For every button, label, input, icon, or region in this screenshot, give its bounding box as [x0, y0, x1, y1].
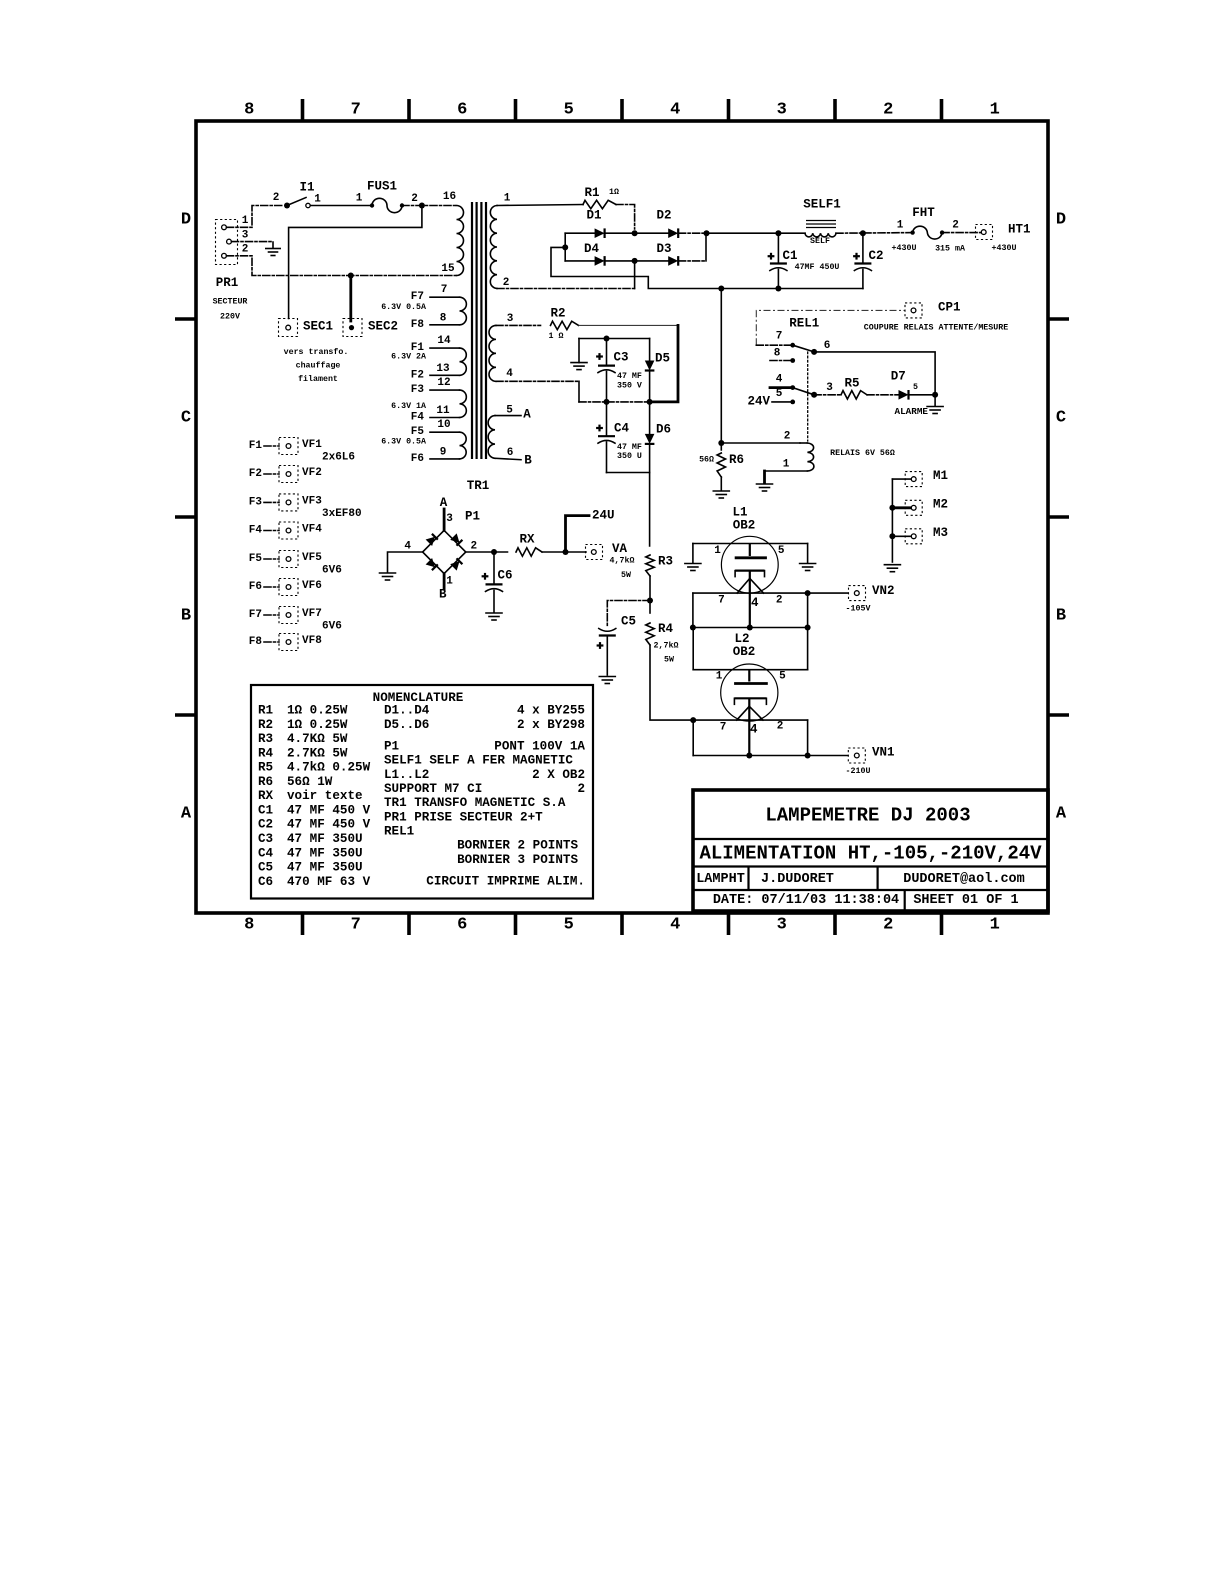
transformer filament winding F5-F6 pins 10-9	[381, 419, 466, 465]
svg-text:7: 7	[776, 331, 783, 343]
svg-text:1: 1	[446, 576, 453, 588]
svg-text:R2: R2	[550, 307, 565, 321]
svg-text:C1: C1	[782, 249, 797, 263]
svg-text:5: 5	[564, 101, 574, 120]
svg-text:SUPPORT M7 CI: SUPPORT M7 CI	[384, 782, 482, 796]
svg-text:VN2: VN2	[872, 584, 895, 598]
ruler ticks bottom	[303, 913, 942, 935]
ruler ticks left	[175, 319, 196, 715]
ground below R6	[713, 491, 729, 498]
ground below measure bus	[884, 565, 900, 572]
svg-text:C: C	[1056, 409, 1066, 428]
wire C3 top row	[579, 338, 650, 340]
svg-text:filament: filament	[298, 374, 338, 384]
svg-text:24V: 24V	[747, 395, 770, 409]
svg-text:VF4: VF4	[302, 524, 322, 536]
svg-text:PONT 100V 1A: PONT 100V 1A	[494, 740, 585, 754]
svg-text:3: 3	[242, 230, 249, 242]
svg-text:1: 1	[716, 671, 723, 683]
tube L1 OB2	[693, 506, 808, 628]
svg-text:C6: C6	[258, 875, 273, 889]
svg-text:R3: R3	[258, 732, 273, 746]
ground L1 pin5	[800, 544, 816, 571]
svg-text:2: 2	[952, 220, 959, 232]
wire pin5 to terminal A	[495, 408, 531, 422]
svg-text:R5: R5	[844, 377, 859, 391]
resistor R6 56ohm	[699, 453, 744, 490]
svg-text:1Ω 0.25W: 1Ω 0.25W	[287, 718, 348, 732]
connector M2	[889, 497, 948, 515]
nomenclature box	[251, 685, 593, 899]
svg-text:2 X OB2: 2 X OB2	[532, 768, 585, 782]
svg-text:1: 1	[714, 545, 721, 557]
svg-text:24U: 24U	[592, 509, 615, 523]
label 47MF 450U	[795, 263, 840, 272]
svg-text:B: B	[1056, 607, 1066, 626]
svg-text:470 MF 63 V: 470 MF 63 V	[287, 875, 371, 889]
ruler ticks right	[1048, 319, 1069, 715]
node 6 wire to D7 cathode	[814, 340, 935, 395]
svg-text:C1: C1	[258, 803, 274, 817]
svg-text:F3: F3	[249, 496, 263, 508]
svg-text:C3: C3	[258, 832, 273, 846]
svg-text:R4: R4	[258, 746, 274, 760]
wire 24U tap	[566, 509, 615, 552]
wire CP1 feed	[756, 310, 905, 345]
svg-text:4.7KΩ 5W: 4.7KΩ 5W	[287, 732, 348, 746]
svg-text:VF6: VF6	[302, 580, 322, 592]
svg-text:SHEET 01 OF 1: SHEET 01 OF 1	[913, 893, 1018, 908]
wire L2 box sides	[693, 720, 807, 755]
svg-text:RX: RX	[258, 789, 274, 803]
svg-text:4: 4	[404, 541, 411, 553]
svg-text:47 MF 450 V: 47 MF 450 V	[287, 803, 371, 817]
capacitor C1 47MF 450V	[768, 230, 798, 291]
svg-text:7: 7	[720, 722, 727, 734]
junction C3 top	[604, 336, 610, 342]
svg-text:2: 2	[777, 721, 784, 733]
relay contact 4	[770, 374, 795, 391]
wire FUS1 to transformer pin16	[402, 203, 456, 209]
svg-text:F1: F1	[249, 440, 263, 452]
svg-text:350 U: 350 U	[617, 452, 642, 461]
ground ALARME	[895, 395, 944, 417]
transformer filament winding F1-F2 pins 14-13	[391, 335, 466, 381]
svg-text:SEC2: SEC2	[368, 320, 398, 334]
capacitor C6 470MF	[482, 552, 513, 612]
svg-text:2: 2	[503, 277, 510, 289]
svg-text:3xEF80: 3xEF80	[322, 508, 362, 520]
connector VA	[586, 542, 628, 560]
svg-text:2: 2	[883, 916, 893, 935]
transformer TR1 label	[467, 479, 490, 493]
svg-text:C6: C6	[497, 569, 512, 583]
svg-text:2x6L6: 2x6L6	[322, 452, 355, 464]
junction bridge AC2	[632, 258, 638, 264]
svg-text:5: 5	[778, 545, 785, 557]
wire RX to VA	[542, 549, 586, 555]
junction on pin15 wire	[348, 273, 354, 279]
wire L1 L2 rail	[690, 625, 811, 631]
svg-text:4: 4	[506, 368, 513, 380]
svg-text:A: A	[1056, 805, 1067, 824]
wire PR1 pin1 to switch I1	[227, 206, 285, 228]
label 315 mA	[935, 245, 965, 254]
svg-text:56Ω: 56Ω	[699, 455, 714, 464]
svg-text:8: 8	[774, 348, 781, 360]
svg-text:1: 1	[783, 459, 790, 471]
wire R2 to right rail	[579, 324, 679, 326]
svg-text:16: 16	[443, 191, 456, 203]
svg-text:2: 2	[273, 192, 280, 204]
svg-text:47 MF 350U: 47 MF 350U	[287, 832, 363, 846]
svg-text:J.DUDORET: J.DUDORET	[761, 872, 834, 887]
svg-text:4: 4	[670, 101, 680, 120]
title block cell DATE	[713, 893, 899, 908]
connector VN2	[846, 584, 895, 613]
svg-text:L1..L2: L1..L2	[384, 768, 429, 782]
svg-text:PR1 PRISE SECTEUR 2+T: PR1 PRISE SECTEUR 2+T	[384, 810, 543, 824]
fuse FUS1	[356, 180, 418, 213]
wire L2 pins row	[690, 717, 807, 736]
svg-text:VF8: VF8	[302, 635, 322, 647]
svg-text:RX: RX	[519, 533, 535, 547]
svg-text:+430U: +430U	[992, 244, 1017, 253]
relay REL1 label	[789, 317, 819, 331]
wire P1 pin4 to ground	[388, 552, 423, 572]
connector VN1	[846, 746, 895, 777]
inductor SELF1	[803, 197, 841, 246]
diode D5	[645, 339, 670, 402]
svg-text:VF1: VF1	[302, 439, 322, 451]
transformer TR1 primary winding 16-15	[441, 191, 463, 276]
svg-text:2: 2	[784, 431, 791, 443]
svg-text:6V6: 6V6	[322, 565, 342, 577]
svg-text:7: 7	[351, 101, 361, 120]
svg-text:SELF1: SELF1	[803, 197, 841, 211]
connector VF1 (F1)	[249, 438, 355, 464]
svg-text:2: 2	[883, 101, 893, 120]
svg-text:VF5: VF5	[302, 552, 322, 564]
svg-text:R6: R6	[729, 453, 744, 467]
fuse FHT	[897, 206, 959, 239]
svg-text:R5: R5	[258, 761, 273, 775]
svg-text:DATE: 07/11/03 11:38:04: DATE: 07/11/03 11:38:04	[713, 893, 899, 908]
svg-text:P1: P1	[384, 740, 400, 754]
ruler numbers bottom	[244, 916, 1000, 935]
svg-text:A: A	[440, 496, 448, 510]
svg-text:SELF1 SELF A FER MAGNETIC: SELF1 SELF A FER MAGNETIC	[384, 754, 573, 768]
svg-text:4,7kΩ: 4,7kΩ	[610, 555, 635, 565]
junction bridge AC1	[632, 230, 638, 236]
svg-text:F6: F6	[411, 453, 424, 465]
wire P1 pin2 to RX	[466, 549, 508, 555]
svg-text:D5..D6: D5..D6	[384, 718, 429, 732]
svg-text:+430U: +430U	[892, 244, 917, 253]
svg-text:1: 1	[897, 220, 904, 232]
svg-text:4: 4	[776, 374, 783, 386]
wire junction to SEC1	[289, 206, 422, 319]
wire R1 to bridge	[616, 205, 635, 230]
svg-text:COUPURE RELAIS ATTENTE/MESURE: COUPURE RELAIS ATTENTE/MESURE	[864, 323, 1008, 333]
ground at PR1 pin3	[266, 249, 280, 256]
junction 0V rail	[718, 286, 724, 292]
svg-text:A: A	[181, 805, 192, 824]
svg-text:HT1: HT1	[1008, 223, 1031, 237]
svg-text:47 MF 350U: 47 MF 350U	[287, 846, 363, 860]
svg-text:6: 6	[507, 447, 514, 459]
svg-text:LAMPHT: LAMPHT	[696, 872, 745, 887]
capacitor C3 47MF 350V	[596, 339, 642, 402]
wire pin6 to terminal B	[495, 454, 532, 468]
wire C3 bottom row	[579, 399, 653, 405]
svg-text:14: 14	[437, 335, 451, 347]
wire pin4 down to bottom row	[578, 381, 580, 402]
svg-text:6V6: 6V6	[322, 621, 342, 633]
svg-text:P1: P1	[465, 510, 480, 524]
connector M3	[889, 526, 948, 544]
wire secondary pin3 to R2	[496, 324, 541, 326]
svg-text:DUDORET@aol.com: DUDORET@aol.com	[903, 872, 1025, 887]
connector VF5 (F5)	[249, 551, 342, 577]
svg-text:C4: C4	[258, 846, 274, 860]
svg-text:OB2: OB2	[733, 645, 756, 659]
svg-text:CP1: CP1	[938, 301, 961, 315]
connector VF8 (F8)	[249, 634, 322, 651]
wire node 3 to R5	[814, 382, 840, 395]
svg-text:F7: F7	[249, 609, 262, 621]
svg-text:4: 4	[670, 916, 680, 935]
svg-text:F7: F7	[411, 291, 424, 303]
subtitle ALIMENTATION HT,-105,-210V,24V	[699, 843, 1042, 865]
svg-text:6: 6	[457, 916, 467, 935]
svg-text:47 MF 450 V: 47 MF 450 V	[287, 818, 371, 832]
svg-text:F8: F8	[411, 319, 425, 331]
svg-text:D1..D4: D1..D4	[384, 704, 430, 718]
svg-text:M2: M2	[933, 497, 948, 511]
svg-text:10: 10	[437, 419, 450, 431]
svg-text:-210U: -210U	[846, 767, 871, 776]
wire R5 to D7	[867, 394, 899, 396]
relay link dotted	[807, 352, 809, 441]
title text LAMPEMETRE DJ 2003	[765, 805, 970, 827]
connector M1	[892, 469, 948, 487]
svg-text:F4: F4	[411, 412, 425, 424]
svg-text:LAMPEMETRE DJ 2003: LAMPEMETRE DJ 2003	[765, 805, 970, 827]
svg-text:1Ω 0.25W: 1Ω 0.25W	[287, 704, 348, 718]
svg-text:315 mA: 315 mA	[935, 245, 965, 254]
ruler letters right	[1056, 211, 1067, 824]
wire secondary pin2 rail	[497, 288, 636, 290]
note vers transfo chauffage filament	[284, 347, 349, 384]
svg-text:3: 3	[777, 101, 787, 120]
svg-text:220V: 220V	[220, 313, 240, 322]
wire bridge left side	[562, 233, 568, 261]
svg-text:F3: F3	[411, 384, 425, 396]
svg-text:4: 4	[750, 723, 758, 737]
wire bridge bottom row	[565, 260, 706, 262]
svg-text:ALARME: ALARME	[895, 406, 929, 417]
ground below C5	[599, 677, 615, 684]
svg-text:C5: C5	[258, 861, 273, 875]
title block	[693, 790, 1048, 911]
svg-text:1: 1	[242, 215, 249, 227]
svg-text:2 x BY298: 2 x BY298	[517, 718, 585, 732]
svg-text:3: 3	[826, 382, 833, 394]
title block cell SHEET	[913, 893, 1018, 908]
diode D4	[584, 242, 605, 266]
svg-text:C2: C2	[868, 249, 883, 263]
wire right rail down	[652, 325, 678, 402]
svg-text:B: B	[181, 607, 191, 626]
svg-text:350 V: 350 V	[617, 382, 642, 391]
svg-text:TR1 TRANSFO MAGNETIC S.A: TR1 TRANSFO MAGNETIC S.A	[384, 796, 566, 810]
diode D3	[656, 242, 678, 266]
svg-text:SELF: SELF	[810, 237, 830, 246]
svg-text:D3: D3	[656, 242, 671, 256]
transformer secondary winding 3-4	[489, 313, 514, 381]
wire R4 down to L2 row	[650, 645, 693, 720]
svg-text:chauffage: chauffage	[296, 361, 341, 371]
node SEC1	[279, 319, 334, 337]
svg-text:6: 6	[457, 101, 467, 120]
svg-text:5: 5	[564, 916, 574, 935]
transformer secondary winding 5-6	[488, 405, 513, 460]
svg-text:5: 5	[779, 671, 786, 683]
svg-text:ALIMENTATION HT,-105,-210V,24V: ALIMENTATION HT,-105,-210V,24V	[699, 843, 1042, 865]
resistor R2 1ohm	[549, 307, 579, 342]
wire secondary pin1 to R1	[497, 205, 583, 206]
svg-text:R2: R2	[258, 718, 273, 732]
svg-text:7: 7	[441, 284, 448, 296]
svg-text:R3: R3	[658, 554, 673, 568]
svg-text:M3: M3	[933, 526, 948, 540]
wire bridge right side up	[704, 230, 710, 261]
svg-text:BORNIER 2 POINTS: BORNIER 2 POINTS	[457, 839, 578, 853]
svg-text:15: 15	[441, 263, 455, 275]
diode D6	[645, 402, 671, 473]
wire I1 to FUS1	[311, 205, 371, 207]
svg-text:9: 9	[440, 446, 447, 458]
svg-text:CIRCUIT IMPRIME ALIM.: CIRCUIT IMPRIME ALIM.	[426, 875, 585, 889]
connector VF3 (F3)	[249, 494, 362, 520]
svg-text:B: B	[439, 588, 447, 602]
svg-text:C3: C3	[613, 350, 628, 364]
wire measure bus	[891, 479, 893, 562]
svg-text:2: 2	[776, 595, 783, 607]
node SEC2	[343, 319, 398, 337]
nomenclature right column	[384, 704, 585, 889]
svg-text:VA: VA	[612, 542, 628, 556]
svg-text:R6: R6	[258, 775, 273, 789]
svg-text:2: 2	[470, 541, 477, 553]
wire AC2 junction down	[634, 261, 636, 289]
diode D7	[891, 370, 938, 400]
svg-text:D1: D1	[586, 209, 601, 223]
svg-text:4: 4	[751, 596, 759, 610]
svg-text:D5: D5	[655, 352, 670, 366]
ground below C6	[486, 613, 502, 620]
title block cell DUDORET@aol.com	[903, 872, 1025, 887]
wire FHT to HT1	[942, 232, 981, 234]
svg-text:2: 2	[411, 193, 418, 205]
connector VF4 (F4)	[249, 522, 322, 539]
svg-text:C4: C4	[614, 421, 630, 435]
svg-text:F2: F2	[411, 369, 424, 381]
svg-text:6.3V 0.5A: 6.3V 0.5A	[381, 303, 426, 312]
nomenclature left column	[258, 704, 371, 889]
svg-text:3: 3	[446, 513, 453, 525]
resistor R4 2.7k 5W	[646, 622, 679, 665]
svg-text:F4: F4	[249, 525, 263, 537]
svg-text:D6: D6	[656, 422, 671, 436]
connector VF7 (F7)	[249, 607, 342, 633]
svg-text:4.7kΩ 0.25W: 4.7kΩ 0.25W	[287, 761, 371, 775]
resistor RX	[516, 533, 542, 557]
resistor R5 4.7k	[841, 377, 867, 400]
svg-text:D2: D2	[656, 209, 671, 223]
wire C4 D6 bottom row to negative rail	[607, 473, 650, 547]
svg-text:1: 1	[990, 101, 1000, 120]
svg-text:2: 2	[577, 782, 585, 796]
svg-text:vers transfo.: vers transfo.	[284, 347, 349, 357]
svg-text:12: 12	[437, 377, 450, 389]
relay contact 5 24V feed	[747, 388, 795, 409]
svg-text:D7: D7	[891, 370, 906, 384]
connector PR1	[213, 215, 249, 322]
svg-text:A: A	[523, 408, 531, 422]
svg-text:5W: 5W	[664, 655, 674, 664]
svg-text:5: 5	[913, 383, 918, 392]
connector VF2 (F2)	[249, 466, 322, 483]
svg-text:R4: R4	[658, 622, 674, 636]
svg-text:56Ω 1W: 56Ω 1W	[287, 775, 333, 789]
svg-text:F8: F8	[249, 636, 263, 648]
svg-text:OB2: OB2	[733, 519, 756, 533]
svg-text:F5: F5	[249, 553, 263, 565]
connector CP1	[905, 301, 961, 318]
nomenclature title	[373, 691, 464, 705]
svg-text:6.3V 0.5A: 6.3V 0.5A	[381, 437, 426, 446]
wire PR1 pin3 to ground	[232, 242, 274, 248]
svg-text:C: C	[181, 409, 191, 428]
relay contact 7	[756, 331, 795, 348]
ground below relay coil	[757, 471, 773, 491]
svg-text:6.3V 2A: 6.3V 2A	[391, 353, 426, 362]
svg-text:1: 1	[356, 193, 363, 205]
svg-text:VF2: VF2	[302, 467, 322, 479]
relay blade 7-6	[793, 345, 817, 355]
svg-text:8: 8	[440, 312, 447, 324]
ground at P1 pin4	[380, 573, 396, 580]
transformer filament winding F7-F8 pins 7-8	[381, 284, 466, 331]
title block cell J.DUDORET	[761, 872, 834, 887]
drawing border frame	[196, 121, 1048, 913]
wire P1 pin3 to A	[440, 496, 448, 530]
svg-text:2,7kΩ: 2,7kΩ	[654, 640, 679, 650]
svg-text:47 MF: 47 MF	[617, 372, 642, 381]
ruler numbers top	[244, 101, 1000, 120]
svg-text:C5: C5	[621, 614, 636, 628]
svg-text:5: 5	[506, 405, 513, 417]
ground L1 pin1	[685, 544, 701, 571]
wire VN2	[808, 592, 848, 594]
wire L2 bottom row	[693, 753, 810, 759]
svg-text:1 Ω: 1 Ω	[549, 332, 564, 341]
relay blade 4-3	[793, 388, 817, 398]
switch I1	[273, 181, 322, 209]
svg-text:1: 1	[314, 194, 321, 206]
